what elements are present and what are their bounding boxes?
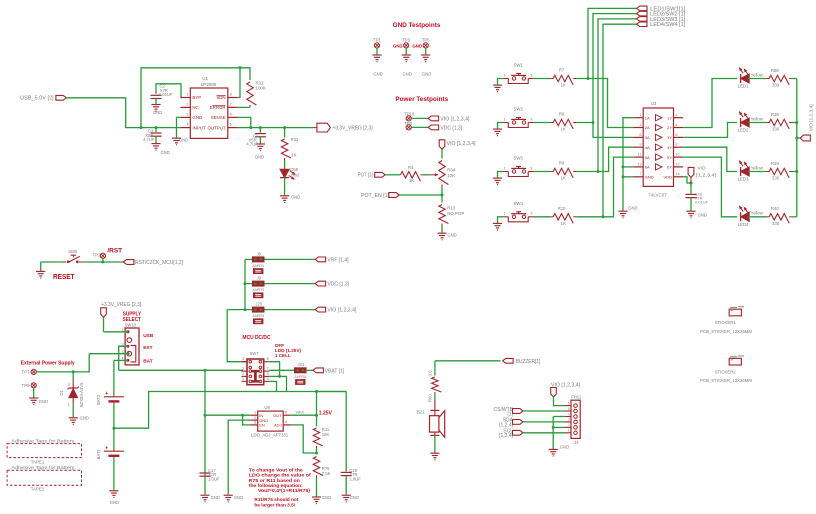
svg-text:1: 1	[186, 92, 188, 97]
svg-text:STICKER2: STICKER2	[715, 369, 737, 374]
svg-text:R38: R38	[771, 112, 779, 117]
svg-text:0.01UF: 0.01UF	[695, 200, 709, 205]
svg-text:100K: 100K	[256, 85, 266, 90]
svg-text:EN: EN	[259, 423, 265, 428]
svg-text:1Y: 1Y	[667, 115, 672, 120]
svg-text:[1,2,3,4]: [1,2,3,4]	[696, 173, 716, 179]
svg-text:3: 3	[186, 112, 188, 117]
svg-text:TAPE1: TAPE1	[31, 459, 45, 464]
svg-text:SW7: SW7	[250, 351, 260, 356]
svg-text:R7: R7	[559, 68, 565, 73]
svg-text:JUMPER2: JUMPER2	[252, 288, 264, 292]
svg-text:be larger than 3.5!: be larger than 3.5!	[254, 502, 295, 507]
svg-text:SW5: SW5	[68, 249, 78, 254]
svg-text:13: 13	[637, 161, 641, 166]
svg-text:3: 3	[530, 72, 532, 77]
svg-text:GND: GND	[393, 43, 403, 48]
svg-text:1K: 1K	[561, 176, 566, 181]
svg-text:R40: R40	[771, 206, 779, 211]
svg-text:18K: 18K	[322, 432, 330, 437]
svg-text:GND: GND	[322, 495, 331, 500]
svg-text:1: 1	[254, 409, 256, 414]
svg-text:0.0: 0.0	[428, 370, 433, 376]
svg-text:vout: vout	[296, 409, 305, 414]
svg-text:1K: 1K	[561, 83, 566, 88]
svg-text:+3.3V_VREG [2,3]: +3.3V_VREG [2,3]	[333, 126, 374, 132]
svg-text:U3: U3	[651, 101, 657, 106]
svg-text:SW2: SW2	[513, 107, 523, 112]
svg-text:D55: D55	[290, 167, 298, 172]
svg-text:Adhesive Tape for Battery: Adhesive Tape for Battery	[11, 465, 75, 470]
svg-text:11: 11	[638, 152, 642, 157]
svg-text:GND: GND	[153, 110, 162, 115]
svg-text:4.7UF: 4.7UF	[246, 142, 258, 147]
svg-text:1.0UF: 1.0UF	[349, 477, 361, 482]
svg-text:VRF [1,4]: VRF [1,4]	[327, 258, 349, 264]
svg-text:OUTPUT: OUTPUT	[208, 125, 226, 130]
svg-text:GND: GND	[447, 233, 456, 238]
svg-text:GND: GND	[255, 155, 264, 160]
svg-text:1K: 1K	[561, 221, 566, 226]
svg-text:R10: R10	[558, 206, 566, 211]
svg-text:5: 5	[267, 376, 269, 381]
svg-text:VDC [1,3]: VDC [1,3]	[327, 282, 349, 288]
svg-text:VIO [1,2,3,4]: VIO [1,2,3,4]	[447, 141, 477, 147]
svg-text:USB_5.0V [2]: USB_5.0V [2]	[20, 96, 54, 102]
svg-text:MCU DC/DC: MCU DC/DC	[243, 335, 271, 341]
svg-text:LED4: LED4	[738, 222, 749, 227]
svg-text:BAT: BAT	[143, 358, 153, 364]
svg-text:ADJ: ADJ	[274, 423, 282, 428]
svg-text:VIO [1,2,3,4]: VIO [1,2,3,4]	[808, 104, 814, 131]
svg-text:VIO [1,2,3,4]: VIO [1,2,3,4]	[327, 308, 357, 314]
svg-text:GND: GND	[403, 71, 412, 76]
svg-text:8: 8	[285, 409, 287, 414]
svg-text:J21: J21	[298, 362, 305, 367]
svg-text:8: 8	[230, 92, 232, 97]
svg-text:7,5K: 7,5K	[322, 471, 331, 476]
svg-text:2: 2	[186, 102, 188, 107]
svg-text:Yellow: Yellow	[751, 165, 764, 170]
svg-text:3: 3	[121, 349, 123, 354]
svg-text:VIO: VIO	[697, 165, 706, 171]
svg-text:GND: GND	[628, 205, 637, 210]
svg-text:3: 3	[568, 418, 570, 422]
svg-text:74LVC07: 74LVC07	[648, 193, 667, 198]
svg-text:1: 1	[68, 403, 70, 407]
svg-text:J4: J4	[574, 440, 579, 445]
svg-text:J20: J20	[255, 302, 262, 307]
svg-text:1 CELL: 1 CELL	[275, 353, 291, 358]
svg-text:Power Testpoints: Power Testpoints	[395, 96, 448, 103]
svg-text:GND: GND	[698, 212, 707, 217]
svg-text:4A: 4A	[645, 145, 650, 150]
svg-text:RESET: RESET	[53, 272, 75, 281]
svg-text:12: 12	[675, 161, 679, 166]
svg-text:R39: R39	[771, 161, 779, 166]
svg-text:1: 1	[503, 211, 505, 216]
svg-text:6A: 6A	[645, 165, 650, 170]
svg-text:VBAT [1]: VBAT [1]	[325, 368, 345, 374]
svg-text:1K: 1K	[409, 178, 414, 183]
svg-text:+: +	[105, 446, 108, 452]
svg-text:GND: GND	[234, 495, 243, 500]
svg-text:5: 5	[639, 132, 641, 137]
svg-text:NC: NC	[192, 105, 198, 110]
svg-text:JUMPER4: JUMPER4	[294, 375, 306, 379]
svg-text:Yellow: Yellow	[751, 116, 764, 121]
svg-text:6: 6	[568, 401, 570, 405]
svg-text:SW10: SW10	[125, 322, 137, 327]
svg-text:PCB_STICKER_13X26MM: PCB_STICKER_13X26MM	[700, 378, 752, 383]
svg-text:Adhesive Tape for Battery: Adhesive Tape for Battery	[11, 438, 75, 443]
svg-text:+: +	[105, 391, 108, 397]
svg-text:JUMPER3: JUMPER3	[252, 314, 264, 318]
svg-text:J8: J8	[257, 251, 262, 256]
svg-text:PCB_STICKER_13X26MM: PCB_STICKER_13X26MM	[700, 329, 752, 334]
svg-text:GND: GND	[192, 115, 202, 120]
svg-text:2: 2	[121, 341, 123, 346]
svg-text:3: 3	[254, 420, 256, 425]
svg-text:SENSE: SENSE	[211, 115, 226, 120]
svg-text:BZ1: BZ1	[417, 410, 426, 415]
svg-text:3: 3	[639, 122, 641, 127]
svg-text:RST/C2CK_MCU[1,2]: RST/C2CK_MCU[1,2]	[135, 260, 184, 266]
svg-text:POT [1]: POT [1]	[358, 173, 374, 179]
svg-text:3A: 3A	[645, 135, 650, 140]
svg-text:LED4/SW4 [1]: LED4/SW4 [1]	[650, 22, 686, 28]
svg-text:2A: 2A	[645, 125, 650, 130]
svg-text:BAT2: BAT2	[96, 394, 101, 405]
svg-text:SW4: SW4	[513, 201, 523, 206]
svg-text:330: 330	[772, 83, 780, 88]
svg-text:1: 1	[503, 165, 505, 170]
svg-text:TAPE2: TAPE2	[31, 487, 45, 492]
svg-text:3: 3	[530, 116, 532, 121]
svg-text:LED1: LED1	[738, 84, 749, 89]
svg-text:GND Testpoints: GND Testpoints	[393, 22, 441, 29]
svg-text:STICKER1: STICKER1	[715, 320, 737, 325]
svg-text:U1: U1	[202, 76, 208, 81]
svg-text:+3.3V_VREG [2,3]: +3.3V_VREG [2,3]	[101, 302, 142, 308]
svg-text:JUMPER1: JUMPER1	[252, 264, 264, 268]
svg-text:5A: 5A	[645, 155, 650, 160]
svg-text:0.01UF: 0.01UF	[159, 92, 173, 97]
svg-text:1K: 1K	[291, 152, 296, 157]
svg-text:1.25V: 1.25V	[319, 411, 333, 417]
svg-text:330: 330	[772, 127, 780, 132]
svg-text:R88: R88	[771, 68, 779, 73]
svg-text:1: 1	[242, 376, 244, 381]
svg-text:SW3: SW3	[513, 156, 523, 161]
svg-text:D1: D1	[59, 389, 64, 395]
svg-text:1A: 1A	[645, 115, 650, 120]
svg-text:GND: GND	[211, 495, 220, 500]
svg-text:9: 9	[639, 142, 641, 147]
svg-text:USB: USB	[143, 333, 154, 339]
svg-text:3: 3	[530, 211, 532, 216]
svg-text:U9: U9	[264, 405, 270, 410]
svg-text:LDO_ADJ_AP7331: LDO_ADJ_AP7331	[251, 433, 289, 438]
svg-text:J9: J9	[257, 276, 262, 281]
svg-text:TP5: TP5	[422, 38, 430, 43]
svg-text:TP9: TP9	[22, 383, 31, 388]
svg-text:330: 330	[772, 221, 780, 226]
svg-text:GND: GND	[110, 500, 119, 505]
svg-text:EXT: EXT	[143, 345, 152, 351]
svg-text:1: 1	[639, 112, 641, 117]
svg-text:GND: GND	[645, 175, 654, 180]
svg-text:TP3: TP3	[402, 38, 410, 43]
svg-text:/RST: /RST	[107, 247, 122, 254]
svg-text:6: 6	[675, 132, 677, 137]
svg-text:6: 6	[230, 112, 232, 117]
svg-text:GND: GND	[560, 444, 569, 449]
svg-text:5: 5	[230, 122, 232, 127]
svg-text:[1,2,4]: [1,2,4]	[499, 433, 514, 439]
svg-text:Yellow: Yellow	[751, 211, 764, 216]
svg-text:2Y: 2Y	[667, 125, 672, 130]
svg-text:GND: GND	[80, 416, 89, 421]
svg-text:Red: Red	[291, 173, 299, 178]
svg-text:1K: 1K	[561, 127, 566, 132]
svg-text:R4: R4	[408, 165, 414, 170]
svg-text:GND: GND	[291, 195, 300, 200]
svg-text:GND: GND	[179, 138, 188, 143]
svg-text:GND: GND	[161, 150, 170, 155]
svg-text:R60: R60	[428, 394, 433, 402]
svg-text:VDC [1,3]: VDC [1,3]	[440, 126, 462, 132]
svg-text:LP2989: LP2989	[201, 82, 217, 87]
svg-text:TP1: TP1	[373, 38, 381, 43]
svg-text:GND: GND	[373, 71, 382, 76]
svg-text:4Y: 4Y	[667, 145, 672, 150]
svg-text:GND: GND	[412, 43, 422, 48]
svg-text:7: 7	[639, 171, 641, 176]
svg-text:TP2: TP2	[93, 253, 101, 258]
svg-text:GND: GND	[350, 495, 359, 500]
svg-text:Vout=0.4*(1+R11/R75): Vout=0.4*(1+R11/R75)	[258, 488, 310, 493]
svg-text:BYP: BYP	[192, 95, 201, 100]
svg-text:1: 1	[503, 72, 505, 77]
svg-text:VDD: VDD	[664, 175, 673, 180]
svg-text:7: 7	[267, 366, 269, 371]
svg-text:POT_EN [1]: POT_EN [1]	[361, 193, 390, 199]
svg-text:8: 8	[267, 356, 269, 361]
svg-text:GND: GND	[422, 71, 431, 76]
svg-text:NO POP: NO POP	[447, 211, 464, 216]
svg-text:VIO [1,2,3,4]: VIO [1,2,3,4]	[440, 117, 470, 123]
svg-text:BUZZER[1]: BUZZER[1]	[516, 359, 541, 365]
svg-text:GND: GND	[39, 399, 48, 404]
svg-text:LED2: LED2	[738, 128, 749, 133]
svg-text:2: 2	[568, 423, 570, 427]
svg-text:R8: R8	[559, 112, 565, 117]
svg-text:5Y: 5Y	[667, 155, 672, 160]
svg-text:330: 330	[772, 176, 780, 181]
svg-text:R33: R33	[291, 137, 299, 142]
svg-text:5: 5	[568, 407, 570, 411]
svg-text:Yellow: Yellow	[751, 72, 764, 77]
svg-text:4: 4	[568, 412, 570, 416]
svg-text:LED3: LED3	[738, 177, 749, 182]
svg-text:SW1: SW1	[513, 63, 523, 68]
svg-text:2: 2	[675, 112, 677, 117]
svg-text:OUT: OUT	[273, 413, 282, 418]
svg-text:4.7UF: 4.7UF	[143, 137, 155, 142]
svg-text:10K: 10K	[447, 173, 455, 178]
svg-text:BZX84-A3V9: BZX84-A3V9	[79, 382, 84, 407]
svg-text:3Y: 3Y	[667, 135, 672, 140]
svg-text:8: 8	[675, 142, 677, 147]
svg-text:INPUT: INPUT	[192, 125, 205, 130]
svg-text:R9: R9	[559, 161, 565, 166]
svg-text:External Power Supply: External Power Supply	[21, 360, 75, 366]
svg-text:1.0UF: 1.0UF	[208, 477, 220, 482]
svg-text:7: 7	[230, 102, 232, 107]
svg-text:BAT1: BAT1	[96, 449, 101, 460]
svg-text:TP7: TP7	[22, 370, 31, 375]
svg-text:6Y: 6Y	[667, 165, 672, 170]
svg-text:3: 3	[68, 382, 70, 386]
svg-text:1: 1	[503, 116, 505, 121]
svg-text:FH12: FH12	[571, 394, 582, 399]
svg-text:3: 3	[242, 366, 244, 371]
svg-text:1: 1	[568, 429, 570, 433]
svg-text:3: 3	[530, 165, 532, 170]
